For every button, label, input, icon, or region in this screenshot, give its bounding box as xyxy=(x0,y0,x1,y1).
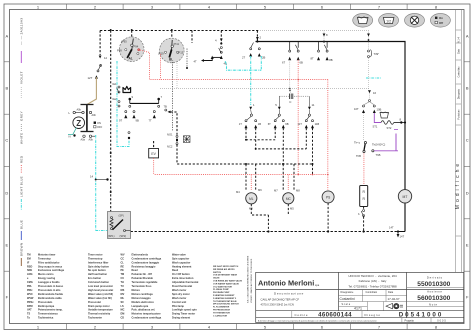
svg-text:6B: 6B xyxy=(300,61,303,65)
svg-text:(P19: (P19 xyxy=(158,52,164,56)
svg-text:C: C xyxy=(5,138,8,143)
contact 12 xyxy=(100,64,102,66)
svg-text:P99: P99 xyxy=(117,49,122,53)
title block xyxy=(256,272,464,322)
svg-text:Data: Data xyxy=(457,48,460,54)
thermostat contact T39 xyxy=(368,50,370,52)
EV solenoid box xyxy=(149,149,159,158)
timer cam group 11 xyxy=(298,96,320,128)
svg-text:OFF: OFF xyxy=(97,125,103,129)
svg-text:EV: EV xyxy=(151,152,156,156)
svg-text:C o d i c e: C o d i c e xyxy=(295,313,308,317)
svg-text:4171: 4171 xyxy=(354,307,362,311)
wire: red right side to R-R xyxy=(363,154,365,186)
wire: cyan under 2T 2B xyxy=(225,56,261,105)
svg-text:A0a: A0a xyxy=(81,139,86,142)
abbreviation legend group 1 xyxy=(27,253,113,319)
svg-text:GREY: GREY xyxy=(20,111,24,121)
heating elements ST1 ST2 coil xyxy=(381,121,394,125)
svg-text:550010300: 550010300 xyxy=(417,281,450,288)
svg-text:D: D xyxy=(5,191,8,196)
wire: grey from 10T down to Th xyxy=(363,113,365,140)
svg-text:N.1-4: N.1-4 xyxy=(458,36,460,42)
node 12 arrow xyxy=(99,56,102,59)
svg-text:11: 11 xyxy=(312,103,315,107)
contact 10B xyxy=(373,105,375,107)
svg-text:8T: 8T xyxy=(311,57,314,61)
node 2 arrow xyxy=(256,31,258,42)
svg-text:Th<c: Th<c xyxy=(354,141,361,145)
svg-text:PS: PS xyxy=(326,196,330,200)
motor MC xyxy=(283,193,294,204)
wire colour legend left xyxy=(20,18,24,256)
svg-text:A0b: A0b xyxy=(89,139,94,142)
svg-text:N: N xyxy=(69,135,71,139)
svg-text:12T: 12T xyxy=(88,76,93,80)
contacts 9T 9B xyxy=(125,111,127,113)
program icon oval 1 wash tub xyxy=(353,13,373,27)
wire: dashed 7B to NO1 xyxy=(171,112,178,135)
svg-text:1/2: 1/2 xyxy=(386,20,391,24)
wire: cyan drops from AL xyxy=(117,61,129,147)
filter circle Z xyxy=(73,117,85,129)
wire: ML bottom link xyxy=(251,204,288,232)
svg-text:Z: Z xyxy=(76,119,81,128)
pressostat SP box xyxy=(108,212,131,239)
wire: grey split below node16 xyxy=(369,94,371,100)
svg-text:C: C xyxy=(466,138,469,143)
svg-text:D: D xyxy=(466,191,469,196)
on-off legend xyxy=(94,122,96,124)
svg-text:ML: ML xyxy=(249,197,254,201)
svg-text:ST2: ST2 xyxy=(387,126,392,130)
svg-text:M5: M5 xyxy=(290,207,294,211)
svg-text:4370.0 230V 50HZ 1st VCN: 4370.0 230V 50HZ 1st VCN xyxy=(261,303,294,307)
svg-text:14T: 14T xyxy=(400,235,405,239)
node on bus x345 xyxy=(323,40,325,42)
wire: solid mains bus xyxy=(256,42,406,232)
bottom terminals A0a A0b xyxy=(83,135,85,137)
svg-text:M7: M7 xyxy=(274,189,278,193)
contact 4T 4B with solid elbow xyxy=(220,31,222,46)
wire: red drop EV to red bus xyxy=(153,158,155,175)
svg-text:17-02-97: 17-02-97 xyxy=(388,297,400,301)
svg-text:1B: 1B xyxy=(258,122,261,126)
contacts 2T 2B xyxy=(250,48,252,50)
wire: grey vertical right with T39 xyxy=(368,31,370,92)
svg-text:2B: 2B xyxy=(262,56,265,60)
svg-text:Controllato: Controllato xyxy=(457,66,460,78)
door interlock icon xyxy=(123,86,131,92)
svg-text:Costantini: Costantini xyxy=(340,297,355,301)
svg-text:N.B. COLLEGARE A TERRA SECONDO: N.B. COLLEGARE A TERRA SECONDO LE NORME xyxy=(247,255,250,303)
svg-text:Tel. 0732/6901 - Telefax 0732/: Tel. 0732/6901 - Telefax 0732/627898 xyxy=(348,285,397,289)
svg-text:M4: M4 xyxy=(236,190,240,194)
wire: violet 10B to heater xyxy=(374,113,381,123)
drawing info xyxy=(341,291,394,306)
N terminal + teal stub xyxy=(68,128,77,135)
contact fed by cyan xyxy=(128,132,130,134)
svg-text:10B: 10B xyxy=(377,108,382,112)
wire: dashed stub x192 xyxy=(191,31,193,44)
svg-text:(P11: (P11 xyxy=(174,42,180,46)
svg-text:D0541000: D0541000 xyxy=(399,312,444,319)
svg-text:0005: 0005 xyxy=(437,320,447,323)
abbreviation legend group 3 xyxy=(213,265,243,317)
svg-text:E: E xyxy=(466,243,469,248)
svg-text:CA6L AP 2M DIA6Q TER AP CF: CA6L AP 2M DIA6Q TER AP CF xyxy=(261,298,300,302)
thermal fuse b xyxy=(363,210,365,212)
svg-text:A: A xyxy=(5,34,8,39)
svg-text:spa: spa xyxy=(315,284,320,287)
svg-text:A s s i e m e: A s s i e m e xyxy=(427,290,442,294)
contact 10T xyxy=(363,105,365,107)
svg-text:6T: 6T xyxy=(282,61,285,65)
svg-text:Antonio Merloni: Antonio Merloni xyxy=(258,279,314,288)
svg-text:Off: Off xyxy=(439,21,443,25)
svg-text:BL: BL xyxy=(169,58,173,62)
svg-text:Data: Data xyxy=(388,291,394,294)
wire: dashed drop into BL xyxy=(171,31,173,39)
wire: PS drop xyxy=(327,203,329,232)
svg-text:16: 16 xyxy=(373,91,377,95)
svg-text:RED: RED xyxy=(20,155,24,163)
svg-text:4T: 4T xyxy=(194,60,197,64)
svg-text:6B: 6B xyxy=(285,122,288,126)
timer cam group 1 xyxy=(239,103,261,128)
wire: dashed feeds into motors xyxy=(246,164,313,190)
svg-text:2T: 2T xyxy=(242,56,245,60)
wire: red network xyxy=(140,50,328,80)
svg-text:A0b: A0b xyxy=(92,114,97,117)
ufficio tecnico address xyxy=(348,274,397,289)
pump PS xyxy=(322,191,334,203)
svg-text:M8: M8 xyxy=(296,189,300,193)
svg-text:A termine di legge ci riservia: A termine di legge ci riserviamo la prop… xyxy=(258,319,377,322)
dashed link to coil C xyxy=(279,95,309,97)
heating element R R xyxy=(360,186,368,207)
sub-bus junction dots xyxy=(245,163,247,165)
node 14 xyxy=(95,179,97,181)
svg-text:(SP2): (SP2) xyxy=(120,234,127,238)
svg-text:BROWN: BROWN xyxy=(20,243,24,256)
node on bus x257 xyxy=(256,40,258,42)
contact 7T xyxy=(153,111,155,113)
svg-text:VIOLET: VIOLET xyxy=(20,71,24,84)
svg-text:M6: M6 xyxy=(258,188,262,192)
wire: grey dotted top horizontal xyxy=(258,30,369,32)
node 8 arrow on grey tap xyxy=(323,31,325,42)
program icon oval 4 on-off xyxy=(430,13,450,27)
contacts 8T 8B xyxy=(319,42,328,51)
svg-text:ThB: ThB xyxy=(376,153,381,157)
svg-text:(SP1): (SP1) xyxy=(108,234,115,238)
svg-text:Posizione: Posizione xyxy=(458,109,460,120)
svg-text:(P13: (P13 xyxy=(178,51,184,55)
node 9 / node 7 solid link xyxy=(129,98,132,101)
svg-text:A: A xyxy=(466,34,469,39)
svg-text:D e r i v a t o: D e r i v a t o xyxy=(427,276,443,280)
svg-text:(SP): (SP) xyxy=(119,214,124,218)
wire: left trunk dashed vertical V1 xyxy=(110,31,112,212)
svg-text:MC: MC xyxy=(286,197,292,201)
svg-text:A0b: A0b xyxy=(77,109,82,112)
junction dots on V1 xyxy=(110,29,112,31)
timer cam group 5 xyxy=(268,96,289,128)
svg-text:MT: MT xyxy=(403,195,408,199)
svg-text:11T: 11T xyxy=(298,122,303,126)
node 12T xyxy=(95,75,98,78)
wire: grey drop below BL xyxy=(172,62,174,131)
svg-text:NC2: NC2 xyxy=(167,145,173,149)
thermostat bulb ThB with violet capillary xyxy=(372,150,374,152)
node 16 xyxy=(368,90,371,93)
svg-text:Disegnatore: Disegnatore xyxy=(341,291,355,294)
wire: red drops to motors xyxy=(251,175,327,191)
contact under node 16 xyxy=(369,100,371,102)
svg-text:ST1: ST1 xyxy=(373,125,378,129)
svg-text:VIGENTI - EARTH ACCORDING TO T: VIGENTI - EARTH ACCORDING TO THE RULES xyxy=(250,258,253,303)
svg-text:UFFICIO TECNICO - via Dante,: UFFICIO TECNICO - via Dante, 264 xyxy=(348,274,397,278)
svg-text:IE2: IE2 xyxy=(113,97,118,101)
svg-text:14T: 14T xyxy=(389,226,394,230)
svg-text:T39°: T39° xyxy=(374,52,380,56)
wire: V2 dashed drop to mains input xyxy=(99,31,101,56)
svg-text:P94: P94 xyxy=(134,45,139,49)
svg-text:Denominazione: Denominazione xyxy=(274,291,304,295)
svg-text:9B: 9B xyxy=(136,119,139,123)
svg-text:11B: 11B xyxy=(315,122,320,126)
svg-text:E: E xyxy=(5,243,8,248)
svg-text:LIGHT BLUE: LIGHT BLUE xyxy=(20,176,24,197)
svg-text:—··— 2A3110A3: —··— 2A3110A3 xyxy=(20,18,24,45)
svg-text:N o t e: N o t e xyxy=(429,302,437,306)
contacts 6T 6B xyxy=(290,42,299,51)
wire: bottom dashed bus xyxy=(131,231,399,233)
wire: dashed routing under contact rows xyxy=(246,128,313,164)
heater icon tub xyxy=(380,113,389,119)
svg-text:BLUE: BLUE xyxy=(20,220,24,229)
svg-text:WHITE: WHITE xyxy=(20,133,24,144)
wire: grey long horizontal xyxy=(160,88,370,90)
svg-text:7B: 7B xyxy=(164,105,167,109)
wire: dashed NC2 to EV xyxy=(177,145,313,164)
svg-text:Th(0-90°C): Th(0-90°C) xyxy=(372,143,385,147)
svg-text:NO1: NO1 xyxy=(167,133,173,137)
svg-text:7T: 7T xyxy=(149,119,152,123)
svg-text:12: 12 xyxy=(104,56,108,60)
revision strip right xyxy=(456,10,462,273)
abbreviation legend group 2 xyxy=(121,253,199,319)
svg-text:AL: AL xyxy=(129,57,133,61)
wire: violet segment xyxy=(395,134,397,151)
svg-text:ThB: ThB xyxy=(356,154,361,158)
program icon oval 3 no spin xyxy=(405,13,425,27)
motor MT xyxy=(398,190,411,203)
svg-text:560010300: 560010300 xyxy=(417,295,450,302)
svg-text:6T: 6T xyxy=(268,122,271,126)
wire: tan lead to filter xyxy=(87,77,96,104)
svg-text:IE1: IE1 xyxy=(113,82,118,86)
coil glyph C xyxy=(289,60,291,89)
svg-text:14: 14 xyxy=(90,175,94,179)
wire: dashed drop into AL xyxy=(131,31,133,37)
suppressor crosshatch box xyxy=(183,136,190,143)
svg-text:D i s e g n o: D i s e g n o xyxy=(365,313,381,317)
svg-text:Progetto: Progetto xyxy=(405,320,415,323)
wire: main dashed bus top horizontal xyxy=(100,30,258,32)
svg-text:Modifiche: Modifiche xyxy=(455,161,461,209)
svg-text:B: B xyxy=(466,86,469,91)
svg-text:Disegnato: Disegnato xyxy=(457,88,460,99)
motor ML xyxy=(246,193,257,204)
first angle projection symbol xyxy=(386,303,403,308)
pressure switch dial BL xyxy=(158,38,184,63)
pressure switch dial AL xyxy=(117,37,144,62)
svg-text:S c a l a: S c a l a xyxy=(342,303,351,306)
capacitor bars xyxy=(86,105,88,132)
wire: cyan right stub xyxy=(366,77,381,79)
svg-text:1T: 1T xyxy=(239,122,242,126)
program icon oval 2 half load tub xyxy=(379,13,399,27)
svg-text:460600144: 460600144 xyxy=(318,312,352,319)
svg-text:(P93: (P93 xyxy=(121,40,127,44)
svg-text:9T: 9T xyxy=(119,119,122,123)
node 8 link to mains xyxy=(394,122,405,124)
svg-text:B: B xyxy=(5,86,8,91)
svg-text:Controllato: Controllato xyxy=(366,291,378,294)
svg-text:10T: 10T xyxy=(354,107,359,111)
svg-text:Fabriano (AN) - Italy: Fabriano (AN) - Italy xyxy=(359,279,387,283)
svg-text:8B: 8B xyxy=(329,58,332,62)
svg-text:On: On xyxy=(439,16,443,20)
interference filter assembly xyxy=(68,105,103,142)
svg-text:ON: ON xyxy=(97,121,101,125)
